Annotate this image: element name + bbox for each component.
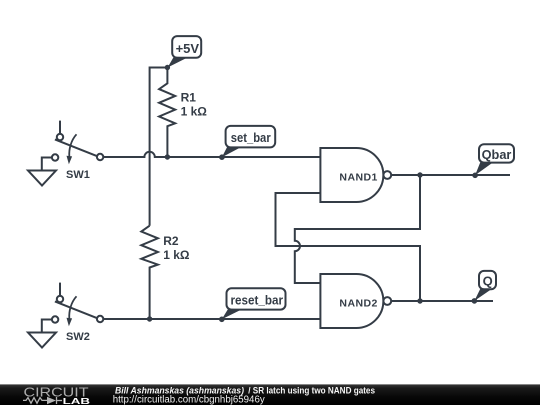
node R1/set_bar bbox=[165, 154, 170, 159]
resistor R2 bbox=[141, 226, 158, 319]
wire Qbar feedback to NAND2 upper input (hop over other feedback) bbox=[295, 175, 420, 283]
node R2/reset_bar bbox=[147, 316, 152, 321]
svg-text:R1: R1 bbox=[181, 90, 197, 104]
node Q junction bbox=[417, 298, 422, 303]
node +5V/R1 bbox=[165, 65, 170, 70]
switch SW2 arrowhead bbox=[67, 318, 73, 326]
power flag +5V bbox=[168, 36, 202, 67]
ground at SW1 bbox=[28, 158, 56, 186]
resistor R1 labels bbox=[181, 90, 208, 118]
wire +5V node to left rail bbox=[150, 67, 168, 69]
switch SW2 bbox=[52, 283, 103, 323]
ground at SW2 bbox=[28, 320, 56, 348]
wire reset_bar net bbox=[103, 318, 320, 320]
svg-text:1 kΩ: 1 kΩ bbox=[181, 105, 208, 119]
net flag Q bbox=[472, 271, 496, 304]
svg-text:R2: R2 bbox=[163, 234, 179, 248]
svg-text:NAND1: NAND1 bbox=[339, 172, 377, 184]
node Qbar junction bbox=[417, 172, 422, 177]
switch SW1 bbox=[52, 121, 103, 161]
NAND gate NAND2 bbox=[320, 274, 391, 328]
footer bar bbox=[0, 384, 540, 405]
svg-text:Qbar: Qbar bbox=[482, 147, 512, 162]
wire set_bar net (with hop over +5V rail) bbox=[103, 152, 320, 157]
svg-text:NAND2: NAND2 bbox=[339, 297, 377, 309]
wire NAND2 output to Q bbox=[391, 300, 493, 302]
net flag reset_bar bbox=[219, 288, 286, 322]
net flag Qbar bbox=[472, 144, 514, 178]
CircuitLab logo resistor-diode glyph bbox=[23, 397, 62, 404]
svg-text:SW1: SW1 bbox=[66, 169, 90, 181]
svg-text:reset_bar: reset_bar bbox=[231, 292, 284, 307]
svg-text:http://circuitlab.com/cbgnhbj6: http://circuitlab.com/cbgnhbj65946y bbox=[113, 395, 265, 405]
svg-text:LAB: LAB bbox=[63, 397, 91, 405]
svg-text:Q: Q bbox=[483, 273, 493, 288]
wire NAND1 output to Qbar bbox=[391, 174, 510, 176]
resistor R1 bbox=[159, 68, 175, 158]
switch SW1 arrowhead bbox=[67, 156, 73, 164]
wire +5V rail down to R2 bbox=[149, 67, 151, 226]
svg-text:+5V: +5V bbox=[176, 41, 200, 56]
junction node dots bbox=[147, 65, 423, 322]
net flag set_bar bbox=[219, 126, 275, 160]
svg-text:SW2: SW2 bbox=[66, 331, 90, 343]
svg-text:1 kΩ: 1 kΩ bbox=[163, 248, 190, 262]
NAND gate NAND1 bbox=[320, 148, 391, 202]
resistor R2 labels bbox=[163, 234, 190, 262]
svg-text:set_bar: set_bar bbox=[231, 130, 271, 145]
wire Q feedback to NAND1 lower input bbox=[276, 193, 421, 301]
CircuitLab logo diode triangle bbox=[47, 397, 56, 404]
